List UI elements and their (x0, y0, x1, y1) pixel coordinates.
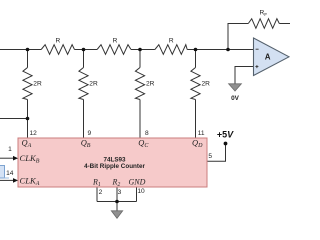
svg-text:R: R (113, 37, 118, 44)
resistor RF feedback (248, 19, 279, 29)
svg-text:+5V: +5V (217, 129, 234, 139)
svg-text:GND: GND (129, 178, 146, 187)
wire: op-amp + input to ground (235, 67, 254, 85)
resistor R (node A-B) (41, 45, 74, 55)
resistor 2R column C (135, 68, 144, 100)
wire (131, 49, 155, 51)
node A junction dot (26, 48, 30, 52)
resistor R (node C-D) (155, 45, 187, 55)
ground arrow 0V (229, 84, 242, 91)
CLKB input arrowhead (13, 156, 18, 161)
wire: R2 pin down (116, 187, 118, 202)
resistor 2R column D (191, 68, 200, 100)
svg-text:R: R (56, 37, 61, 44)
wire: CLKB input line (0, 157, 14, 159)
wire: CLKA input line (0, 179, 14, 181)
node D junction dot (194, 48, 198, 52)
wire: QA column (27, 50, 29, 68)
feedback junction dot (226, 48, 230, 52)
clock source icon (0, 166, 9, 179)
svg-text:3: 3 (118, 189, 122, 196)
svg-text:2R: 2R (33, 80, 42, 87)
op-amp plus sign (255, 65, 258, 68)
wire: main ladder bus top (0, 49, 41, 51)
wire: RF right lead (279, 23, 290, 25)
left stub junction dot (26, 117, 30, 121)
svg-text:4-Bit Ripple Counter: 4-Bit Ripple Counter (84, 163, 145, 170)
svg-text:5: 5 (208, 153, 212, 160)
svg-text:9: 9 (88, 130, 92, 137)
wire: QD column (195, 50, 197, 68)
ground arrow reset (111, 211, 122, 219)
svg-text:14: 14 (6, 170, 14, 177)
svg-text:0V: 0V (231, 95, 240, 102)
wire: feedback riser to RF (228, 24, 248, 50)
wire: left stub at QA column (0, 118, 28, 120)
wire: stem to ground arrow (116, 202, 118, 212)
resistor 2R column A (23, 68, 32, 100)
wire: reset ground bus (97, 201, 137, 203)
wire: node D to op-amp inverting input (187, 49, 253, 51)
svg-text:1: 1 (8, 146, 12, 153)
wire: between R resistors (75, 49, 98, 51)
svg-text:8: 8 (145, 130, 149, 137)
svg-text:A: A (265, 53, 271, 62)
resistor R (node B-C) (97, 45, 131, 55)
svg-text:10: 10 (137, 188, 145, 195)
op-amp minus sign (256, 48, 259, 50)
op-amp U1 body (254, 38, 290, 76)
svg-text:11: 11 (198, 130, 205, 137)
wire: QB column (83, 50, 85, 68)
svg-text:2R: 2R (146, 80, 155, 87)
reset bus junction dot (115, 200, 119, 204)
74LS93 counter body (18, 138, 207, 187)
svg-text:R: R (169, 37, 174, 44)
+5V junction dot (224, 142, 228, 146)
node B junction dot (82, 48, 86, 52)
svg-text:2R: 2R (202, 80, 211, 87)
wire: pin5 to +5V (207, 144, 226, 162)
svg-text:2R: 2R (89, 80, 98, 87)
wire: R1 pin down (96, 187, 98, 202)
wire: QC column (139, 50, 141, 68)
svg-text:2: 2 (99, 189, 103, 196)
svg-text:12: 12 (30, 130, 38, 137)
resistor 2R column B (79, 68, 88, 100)
node C junction dot (138, 48, 142, 52)
CLKA input arrowhead (13, 178, 18, 183)
wire: GND pin down (136, 187, 138, 202)
